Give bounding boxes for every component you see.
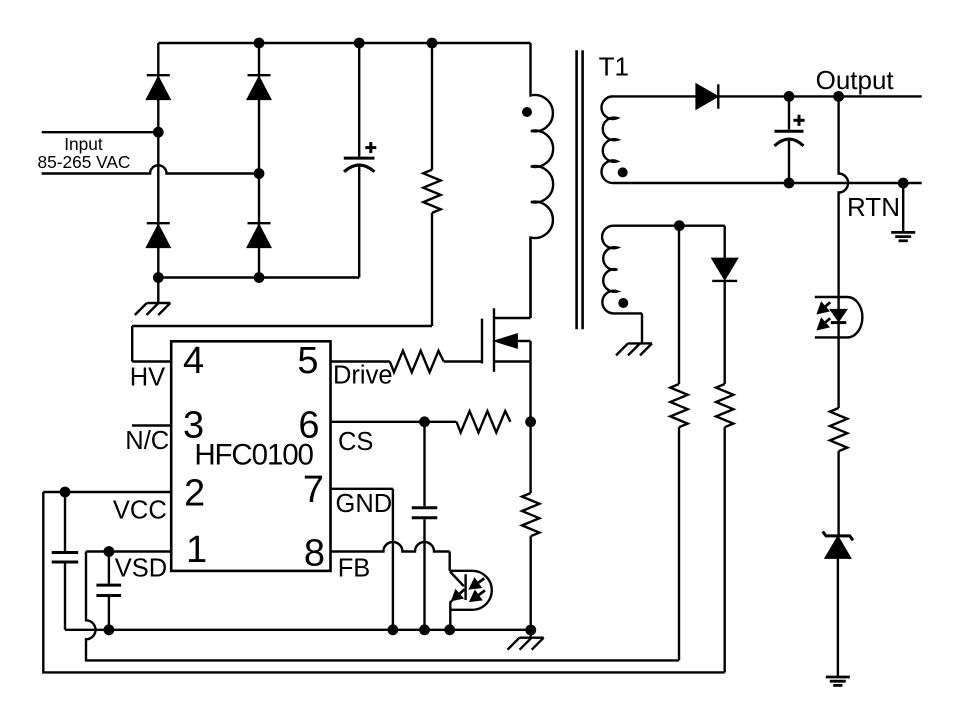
winding secondary of T1 bbox=[602, 96, 640, 183]
svg-text:T1: T1 bbox=[599, 51, 629, 81]
phototransistor collector lead bbox=[450, 572, 464, 587]
transistor Q1 source stub bbox=[494, 360, 531, 362]
wire CS cap bottom lead bbox=[423, 519, 425, 630]
transistor Q1 gate bar bbox=[481, 319, 483, 364]
node aux top junction bbox=[674, 220, 685, 231]
wire R1 top lead bbox=[431, 43, 433, 170]
svg-text:Drive: Drive bbox=[333, 361, 393, 389]
node GND at bus bbox=[388, 624, 399, 635]
wire sense resistor bottom lead bbox=[530, 536, 532, 630]
node CS at pin wire bbox=[419, 416, 430, 427]
pin 6 stub CS bbox=[331, 421, 457, 423]
node top bus at R1 bbox=[427, 38, 438, 49]
ground chassis at auxiliary winding bbox=[641, 313, 643, 343]
phase dot auxiliary bbox=[618, 298, 628, 308]
wire drain up to primary bbox=[529, 238, 531, 319]
wire VCC left rail bbox=[43, 492, 724, 672]
wire R1 bottom lead to HV line bbox=[431, 213, 433, 326]
resistor R3 (aux left) bbox=[670, 384, 687, 427]
node top bus at right leg bbox=[254, 38, 265, 49]
node VSD cap at bus bbox=[104, 624, 115, 635]
ground earth at RTN bbox=[902, 183, 904, 232]
ground chassis at bridge bbox=[157, 278, 159, 304]
node CS at source bbox=[525, 416, 536, 427]
transistor Q1 channel bar bbox=[493, 308, 495, 372]
wire VCC cap top lead bbox=[64, 492, 66, 551]
wire opto LED to R5 bbox=[837, 337, 839, 408]
resistor R2 (gate drive) bbox=[390, 351, 444, 372]
resistor R4 (aux right) bbox=[716, 384, 733, 427]
wire HV line bbox=[132, 325, 432, 327]
diode D3 lower-left (bridge) bbox=[147, 222, 170, 224]
phototransistor base bar bbox=[464, 574, 466, 600]
wire VSD cap bottom lead bbox=[108, 597, 110, 630]
svg-text:2: 2 bbox=[184, 473, 205, 515]
svg-text:CS: CS bbox=[338, 428, 373, 456]
label + of C2 bbox=[793, 119, 804, 122]
node CS cap at bus bbox=[419, 624, 430, 635]
node opto emitter at bus bbox=[444, 624, 455, 635]
wire aux right corner down to D6 bbox=[724, 226, 726, 259]
label + of C1 bbox=[365, 146, 376, 149]
LED of U2 bbox=[837, 297, 839, 310]
capacitor C2 output (polarized) bbox=[788, 96, 790, 129]
core of T1 bbox=[575, 50, 578, 329]
wire aux top bbox=[642, 224, 725, 226]
winding primary of T1 bbox=[531, 43, 554, 318]
svg-text:VSD: VSD bbox=[115, 555, 167, 583]
svg-text:RTN: RTN bbox=[847, 192, 900, 222]
node output to opto branch bbox=[833, 91, 844, 102]
node top bus at bulk cap bbox=[354, 38, 365, 49]
wire R4 bottom to VCC bus bbox=[724, 427, 726, 672]
capacitor C4 (VSD) bbox=[96, 584, 121, 587]
phototransistor emitter with arrow bbox=[459, 589, 464, 594]
wire VSD cap top lead bbox=[108, 552, 110, 584]
wire aux left branch down bbox=[678, 226, 680, 384]
capacitor C3 (VCC) bbox=[52, 551, 78, 554]
wire D6 to R4 bbox=[724, 281, 726, 384]
transistor Q1 body line with arrow bbox=[514, 340, 531, 342]
capacitor C1 bulk (polarized) bbox=[358, 43, 360, 157]
wire CS cap top lead bbox=[423, 422, 425, 506]
svg-text:85-265 VAC: 85-265 VAC bbox=[38, 152, 131, 172]
node bridge bottom left bbox=[153, 272, 164, 283]
resistor R7 (current sense) bbox=[522, 493, 539, 536]
pin 1 stub VSD bbox=[86, 550, 171, 552]
svg-text:GND: GND bbox=[336, 490, 393, 518]
pin 4 stub HV bbox=[132, 360, 171, 362]
node RTN terminal bbox=[898, 178, 909, 189]
winding auxiliary of T1 bbox=[602, 226, 642, 314]
svg-text:VCC: VCC bbox=[113, 496, 167, 524]
light arrow 4 into phototransistor bbox=[478, 590, 485, 595]
diode D6 aux rectifier bbox=[712, 259, 737, 280]
wire output node down with hop over RTN bbox=[839, 96, 849, 297]
diode D1 upper-left (bridge) bbox=[147, 74, 170, 76]
svg-text:FB: FB bbox=[338, 554, 371, 582]
pin 2 stub VCC bbox=[43, 491, 171, 493]
phase dot primary bbox=[522, 107, 532, 117]
node output cap top bbox=[784, 91, 795, 102]
capacitor C5 (CS filter) bbox=[412, 506, 438, 509]
op-amp U1 HFC0100 box bbox=[171, 341, 330, 571]
pin 3 stub N/C overline bbox=[132, 424, 171, 426]
light arrow 1 of U2 bbox=[825, 302, 830, 307]
svg-text:5: 5 bbox=[297, 340, 318, 382]
wire sense resistor top lead bbox=[529, 422, 531, 493]
pin 5 stub Drive bbox=[331, 360, 390, 362]
wire R2 to gate bbox=[444, 360, 482, 362]
svg-text:HFC0100: HFC0100 bbox=[194, 438, 313, 471]
node RTN at cap bottom bbox=[784, 178, 795, 189]
node VSD cap top bbox=[104, 546, 115, 557]
ground chassis at bottom bus bbox=[530, 630, 532, 638]
wire bridge bottom bus bbox=[158, 276, 359, 278]
wire top bus bbox=[158, 42, 530, 44]
node input-lower to bridge bbox=[254, 168, 265, 179]
wire left bridge leg bbox=[157, 43, 159, 278]
svg-text:HV: HV bbox=[130, 363, 165, 391]
resistor R6 (CS filter, horizontal) bbox=[457, 411, 511, 432]
opto-coupler U2 phototransistor side (D-shape) bbox=[450, 571, 492, 610]
wire input line upper bbox=[42, 131, 159, 133]
svg-text:4: 4 bbox=[183, 340, 204, 382]
zener diode Z1 bbox=[825, 537, 850, 558]
wire right bridge leg bbox=[258, 43, 260, 278]
wire zener to ground bbox=[837, 558, 839, 677]
wire secondary top to output bbox=[640, 95, 922, 97]
light arrow 2 of U2 bbox=[825, 318, 830, 323]
diode D2 upper-right (bridge) bbox=[248, 74, 271, 76]
node sense at bus end bbox=[525, 625, 536, 636]
svg-text:N/C: N/C bbox=[125, 427, 169, 455]
wire VCC cap bottom lead bbox=[64, 564, 66, 630]
node bridge bottom right bbox=[254, 272, 265, 283]
node input-upper to bridge bbox=[153, 127, 164, 138]
light arrow 3 into phototransistor bbox=[478, 578, 485, 583]
wire secondary bottom / RTN bbox=[640, 182, 922, 184]
wire input line lower with hop over left bridge leg bbox=[42, 165, 259, 173]
resistor R1 (HV startup) bbox=[423, 170, 440, 213]
pin 8 stub FB with hops over GND and CS verticals bbox=[331, 542, 450, 552]
diode D5 output rectifier bbox=[696, 84, 717, 108]
svg-text:8: 8 bbox=[304, 533, 325, 575]
pin 7 stub GND bbox=[331, 488, 393, 490]
ground earth at zener bbox=[826, 676, 850, 679]
svg-text:1: 1 bbox=[186, 529, 207, 571]
wire HV vertical to pin 4 bbox=[131, 326, 133, 362]
transistor Q1 drain stub bbox=[494, 317, 531, 319]
svg-text:Output: Output bbox=[816, 65, 895, 95]
wire source down to CS node bbox=[529, 362, 531, 422]
wire bottom bus bbox=[65, 629, 531, 631]
wire GND pin to bottom bus bbox=[392, 489, 394, 630]
wire VSD rail with hop over bottom bus bbox=[86, 552, 679, 661]
resistor R5 (opto series) bbox=[830, 408, 847, 451]
wire R5 to zener bbox=[837, 451, 839, 536]
wire FB corner down to opto bbox=[449, 552, 451, 571]
wire R3 bottom to VSD bus bbox=[678, 427, 680, 660]
svg-text:7: 7 bbox=[303, 469, 324, 511]
opto-coupler U2 LED side (D-shape) bbox=[815, 297, 863, 337]
diode D4 lower-right (bridge) bbox=[248, 222, 271, 224]
phase dot secondary bbox=[618, 167, 628, 177]
node VCC cap top bbox=[60, 487, 71, 498]
